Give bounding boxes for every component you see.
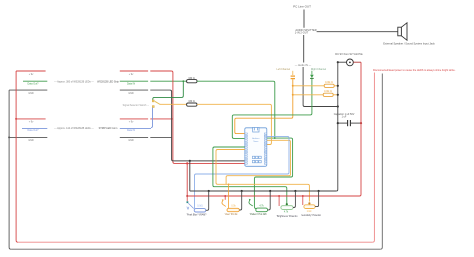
node GND tap [189,160,191,162]
wire R3 to DC minus rail [334,85,338,87]
wire DC plus lead [353,61,361,63]
svg-text:WS2812B LED Strip: WS2812B LED Strip [97,80,119,83]
svg-text:'Pattern' Pot 4k8: 'Pattern' Pot 4k8 [250,213,267,216]
svg-text:GND: GND [28,92,34,95]
svg-text:10kΩ: 10kΩ [197,205,203,207]
svg-text:+ 9v: + 9v [29,73,34,76]
wire DC plus vertical rail [360,62,362,196]
svg-text:'sensitivity' Potentio: 'sensitivity' Potentio [301,214,322,217]
LED strip A +9v wire [16,71,171,76]
wire bottom red return [18,241,372,243]
wire orange to R4 [293,94,323,96]
svg-text:Left Channel: Left Channel [277,68,291,71]
svg-text:--- Approx. 144 of WS2812B LED: --- Approx. 144 of WS2812B LEDs --- [54,127,94,130]
svg-text:Right Channel: Right Channel [311,68,327,71]
LED strip B data wire [22,129,151,133]
wire bottom black return [11,248,380,250]
wire main red vertical to VIN [171,71,244,163]
LED strip B +9v wire [15,118,173,124]
arduino nano U1 [245,127,267,166]
svg-text:+ 9v: + 9v [29,121,34,124]
wire black bus [190,190,336,192]
wire green data pin stub and wrap to pot3 [254,138,292,208]
potentiometer P4 brightness [277,190,299,218]
wire yellow Y2 loop pin to Y line [226,140,290,184]
switch S1 [123,100,161,108]
wire splitter to PC line out [303,10,305,28]
svg-text:PC Line OUT: PC Line OUT [293,5,311,9]
node orange tap R3 [292,85,294,87]
svg-text:+ 9v: + 9v [129,121,134,124]
svg-text:External Speaker / Sound Syste: External Speaker / Sound System Input Ja… [383,42,435,46]
wire left black frame vertical [9,90,11,249]
svg-text:1 uF: 1 uF [342,116,347,119]
svg-text:1-IN 2-OUT: 1-IN 2-OUT [295,31,309,35]
svg-text:GND: GND [128,139,134,142]
wire orange to R3 [293,85,324,87]
svg-text:Arduino: Arduino [252,137,260,140]
svg-text:Disconnected/dead power to cau: Disconnected/dead power to cause the LED… [373,69,456,72]
capacitor C3 right channel [310,71,314,79]
svg-text:330 Ω: 330 Ω [188,100,195,103]
wire R4 to DC minus rail [333,94,338,96]
svg-text:DC 9V from 9V Volt Pile: DC 9V from 9V Volt Pile [335,52,363,56]
svg-text:STRIP LED Conn: STRIP LED Conn [99,127,118,130]
resistor R4 [323,90,333,96]
capacitor C2 left channel [291,71,295,79]
svg-text:Data IN: Data IN [127,129,135,132]
svg-text:1 kΩ: 1 kΩ [307,211,312,213]
nano ICSP pins [252,156,261,163]
node VIN tap [186,162,188,164]
svg-text:Data Out?: Data Out? [28,129,40,132]
svg-text:Signal Selector Switch ↔: Signal Selector Switch ↔ [123,104,150,107]
wire green G1 nano to pot4 wiper [213,147,287,204]
LED strip A GND wire [9,90,170,95]
potentiometer P3 pattern [249,190,272,216]
wire VIN tap down to red bus [186,163,188,196]
wire green data to switch [153,81,184,100]
wire audio ground down and right to DC minus rail [303,67,338,107]
speaker SPK1 [383,23,435,46]
wire switch orange resistor to nano [197,104,271,144]
svg-text:Nano: Nano [253,141,259,143]
resistor R1 330 [187,77,197,83]
svg-text:'Peak Blue' VRAM?: 'Peak Blue' VRAM? [187,213,208,216]
wire yellow Y nano to pot5 wiper [216,150,309,202]
audio splitter U2 [295,28,317,35]
wire splitter to speaker [317,31,398,33]
node junction green data to switch [182,80,184,82]
svg-text:'User' Pot 4k: 'User' Pot 4k [225,213,239,216]
svg-text:+ 9v: + 9v [129,73,134,76]
LED strip A data wire [23,81,187,85]
wire green data resistor to nano [197,81,275,138]
potentiometer P2 user [222,183,243,216]
svg-text:GND: GND [28,139,34,142]
wire switch output orange [160,103,187,105]
potentiometer P1 peak blue [186,190,210,216]
wire blue loop nano to pot1 [195,136,290,208]
nano pins right [264,133,266,164]
resistor R3 [324,81,334,88]
wire GND tap down to black bus [189,161,191,191]
wire right channel green to nano [232,79,312,138]
wire aux red vertical [372,73,374,243]
potentiometer P5 sensitivity [301,190,322,217]
wire main black vertical to GND [170,90,245,161]
svg-text:100k Ω: 100k Ω [325,81,333,84]
wire DC minus vertical rail [336,62,338,191]
node orange tap R4 [292,94,294,96]
nano pins left [245,133,247,164]
svg-text:Data IN: Data IN [127,83,135,86]
wire left channel orange to nano [235,79,293,133]
svg-text:--- Approx. 300 of WS2812B LED: --- Approx. 300 of WS2812B LEDs --- [54,80,94,83]
node PC Line OUT [293,5,311,9]
wire blue data to switch [151,108,153,128]
svg-text:'Brightness' Potentio: 'Brightness' Potentio [277,215,299,218]
LED strip B GND wire [8,136,172,142]
wire aux black vertical [380,74,382,250]
capacitor C1 [334,113,362,126]
svg-text:GND: GND [128,92,134,95]
wire left red frame vertical [16,71,18,242]
wire splitter down to audio-in label [303,35,305,63]
DC adapter X1 [335,52,363,66]
svg-text:Data Out?: Data Out? [28,83,40,86]
svg-text:--- Audio IN ---: --- Audio IN --- [295,63,312,67]
wire DC minus lead [338,61,347,63]
resistor R2 330 [187,100,197,106]
wire red bus [187,195,359,197]
